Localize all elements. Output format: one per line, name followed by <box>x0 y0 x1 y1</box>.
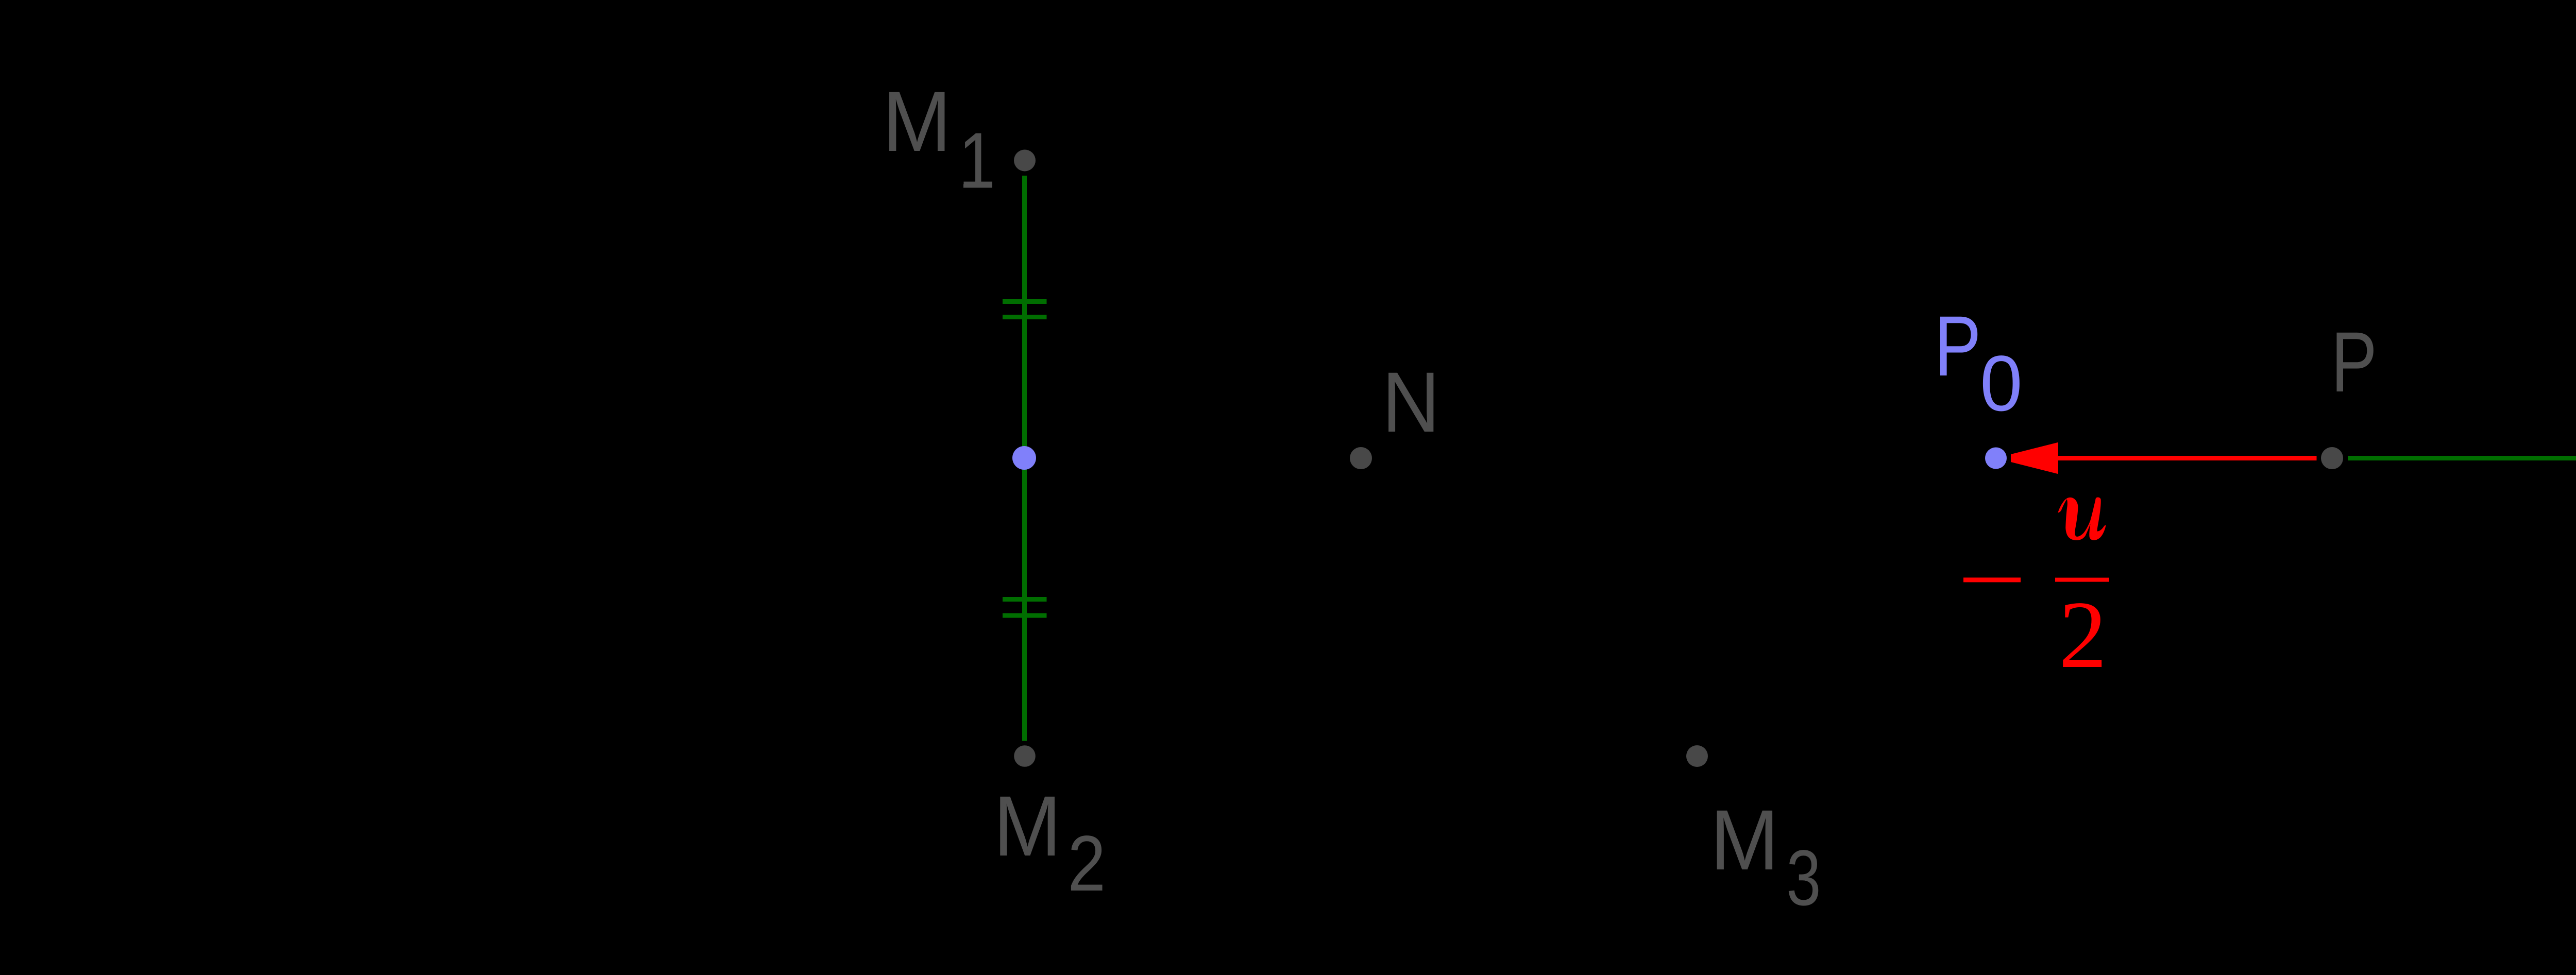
svg-text:0: 0 <box>1980 339 2023 427</box>
svg-text:P: P <box>1935 299 1981 394</box>
svg-text:2: 2 <box>1067 819 1106 908</box>
svg-text:M: M <box>993 778 1061 874</box>
svg-text:2: 2 <box>2059 581 2107 688</box>
svg-text:3: 3 <box>1786 834 1821 922</box>
svg-text:P: P <box>2331 314 2377 409</box>
svg-text:M: M <box>883 74 952 169</box>
svg-text:N: N <box>1382 355 1440 450</box>
svg-text:M: M <box>1710 792 1779 888</box>
svg-text:1: 1 <box>959 116 996 204</box>
